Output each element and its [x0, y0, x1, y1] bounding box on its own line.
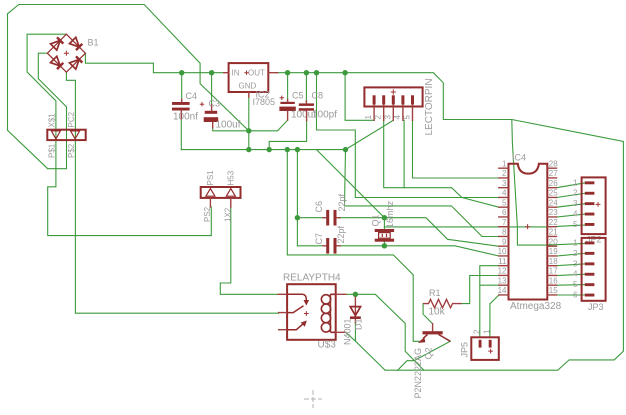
junction dot	[314, 70, 319, 75]
wire: C5 top lead	[287, 73, 289, 100]
svg-text:16mhz: 16mhz	[385, 200, 395, 228]
wire: LECTORPIN pin5 down to IC4 pin2	[413, 120, 499, 178]
svg-text:4: 4	[573, 270, 578, 279]
svg-text:22pf: 22pf	[336, 225, 346, 243]
JP3 pin numbers	[573, 238, 578, 299]
wire: LECTORPIN pin4 down to IC4 pin4 row	[404, 120, 462, 197]
junction dot	[304, 70, 309, 75]
svg-text:P$2: P$2	[67, 143, 76, 158]
wire: IC4 pin14 diagonal to JP5 pin1	[490, 295, 499, 338]
wire: B1 right corner to IC2 IN	[85, 53, 224, 72]
crystal Q1 16mhz	[375, 229, 394, 242]
pin header LECTORPIN	[364, 87, 422, 120]
wire: C3 top lead	[211, 73, 213, 105]
wire: IC4 to JP3 pin 2	[557, 253, 586, 256]
wire: IC4 pin20 to JP3 pin1	[547, 244, 585, 246]
svg-text:2: 2	[472, 329, 481, 334]
svg-text:3: 3	[573, 259, 578, 268]
svg-text:C4: C4	[186, 91, 198, 101]
svg-text:Q1: Q1	[371, 214, 381, 226]
junction dot	[285, 70, 290, 75]
svg-text:PS2: PS2	[203, 206, 212, 222]
svg-text:4: 4	[393, 115, 402, 120]
IC4 Atmega328	[499, 164, 557, 300]
svg-text:N4001: N4001	[343, 318, 353, 345]
svg-text:1: 1	[482, 329, 491, 334]
svg-text:100nf: 100nf	[173, 112, 198, 123]
bridge rectifier B1	[47, 34, 85, 72]
wire: crystal top row east to IC4 pin9	[384, 218, 498, 247]
capacitor C7	[323, 238, 340, 254]
wire: C3 bottom to big dot	[213, 128, 249, 131]
svg-text:10: 10	[498, 247, 507, 256]
svg-text:R1: R1	[429, 288, 441, 298]
wire: Q2 collector to +5V row	[398, 341, 451, 370]
wire: C6 row right to crystal	[340, 217, 384, 219]
junction dot	[382, 215, 387, 220]
svg-text:3: 3	[502, 179, 507, 188]
svg-text:1X2: 1X2	[224, 207, 233, 222]
svg-text:1: 1	[364, 115, 373, 120]
junction dot	[246, 147, 251, 152]
JP2 plus mark	[596, 202, 601, 207]
IC4 pin numbers right	[549, 159, 558, 295]
wire: D1 bottom diagonal	[355, 323, 385, 371]
svg-text:5: 5	[573, 280, 578, 289]
svg-text:C6: C6	[314, 201, 324, 213]
svg-text:1: 1	[502, 159, 507, 168]
svg-text:C7: C7	[314, 233, 324, 245]
junction dot	[285, 147, 290, 152]
relay origin cross	[304, 311, 309, 316]
junction dot	[295, 147, 300, 152]
svg-text:8: 8	[502, 228, 507, 237]
svg-text:28: 28	[549, 159, 558, 168]
wire: PS right pin down to relay top pin	[220, 207, 278, 294]
connector JP3	[582, 238, 606, 301]
wire: IC4 to JP2 pin 2	[557, 193, 586, 197]
svg-text:X$1: X$1	[48, 113, 57, 128]
svg-text:IN: IN	[232, 69, 240, 78]
svg-text:25: 25	[549, 189, 558, 198]
wire: IC4 to JP3 pin 6	[557, 294, 586, 296]
svg-text:1: 1	[573, 178, 578, 187]
svg-text:U$3: U$3	[318, 340, 337, 351]
wire: IC4 to JP3 pin 5	[557, 284, 586, 287]
JP5 plus mark	[488, 349, 493, 354]
svg-text:6: 6	[502, 208, 507, 217]
svg-text:5: 5	[573, 220, 578, 229]
wire: LECTORPIN pin2 down	[384, 120, 404, 187]
wire: R1 right up to IC4 pin12	[462, 276, 499, 304]
wire: GND bus	[181, 149, 345, 151]
svg-text:I7805: I7805	[253, 97, 276, 107]
svg-text:OUT: OUT	[248, 69, 265, 78]
svg-text:6: 6	[573, 291, 578, 300]
wire: rail branch x345 to LECTORPIN pin1	[345, 73, 374, 121]
svg-text:C8: C8	[312, 91, 324, 101]
wire: IC4 to JP3 pin 4	[557, 274, 586, 275]
wire: bus diagonal to crystal top	[317, 150, 385, 218]
junction dot	[353, 292, 358, 297]
connector X1	[47, 130, 85, 140]
wire: C6 row left	[297, 217, 323, 219]
wire: LECTORPIN pin3 diagonal to GND dot	[346, 120, 394, 149]
transistor Q2 P2N2222AG	[418, 324, 451, 343]
svg-text:GND: GND	[239, 82, 257, 91]
wire: outer loop left + top GND feed to big dot	[8, 5, 249, 169]
svg-text:3: 3	[383, 115, 392, 120]
origin cross of B1	[64, 51, 69, 56]
resistor R1 10k	[423, 299, 462, 307]
svg-text:12: 12	[498, 267, 507, 276]
C3 plus mark	[200, 102, 204, 106]
svg-text:JP3: JP3	[588, 302, 604, 312]
wire: IC4 to JP2 pin 1	[557, 183, 586, 188]
junction dot	[382, 243, 387, 248]
svg-text:13: 13	[498, 276, 507, 285]
svg-text:15: 15	[549, 286, 558, 295]
svg-text:H53: H53	[227, 170, 236, 185]
junction dot	[179, 70, 184, 75]
svg-text:100uf: 100uf	[216, 120, 241, 131]
svg-text:3: 3	[573, 199, 578, 208]
wire: C8 top lead	[305, 73, 307, 101]
svg-text:IC4: IC4	[512, 153, 526, 163]
wire: relay coil top east to +5V row	[346, 294, 424, 370]
capacitor C5	[279, 100, 295, 121]
wire: rail branch x316 south then to x355	[317, 73, 499, 198]
svg-text:9: 9	[502, 237, 507, 246]
wire: B1 top corner to X1 pin1 to PS1 left pin	[27, 34, 211, 235]
svg-text:27: 27	[549, 169, 558, 178]
svg-text:C5: C5	[292, 91, 304, 101]
svg-text:23: 23	[549, 208, 558, 217]
wire: X1 middle vertical to B1 left corner	[38, 53, 66, 169]
svg-text:17: 17	[549, 267, 558, 276]
wire: C7 row right to crystal and IC4 pin10	[340, 246, 499, 256]
diode D1 N4001	[350, 297, 361, 323]
svg-text:2: 2	[573, 189, 578, 198]
svg-text:26: 26	[549, 179, 558, 188]
wire: B1 bottom corner to X1 pin2 to relay switch pin	[66, 72, 278, 313]
capacitor C4	[172, 100, 190, 120]
IC2 origin cross	[244, 71, 248, 75]
capacitor C8	[299, 101, 314, 121]
svg-text:4: 4	[502, 189, 507, 198]
wire: IC4 to JP2 pin 4	[557, 214, 586, 217]
wire: C7 row left	[297, 245, 323, 247]
connector JP2	[582, 177, 606, 234]
svg-text:LECTORPIN: LECTORPIN	[424, 78, 435, 135]
relay U$3 RELAYPTH4	[278, 284, 345, 340]
svg-text:1: 1	[573, 238, 578, 247]
wire: IC4 to JP3 pin 3	[557, 264, 586, 266]
svg-text:P2N2222AG: P2N2222AG	[413, 348, 423, 399]
wire: R1 left to Q2 base	[423, 304, 433, 324]
capacitor C6	[323, 210, 340, 226]
wire: shallow diagonal to IC4 pin5	[462, 198, 499, 208]
wire: relay coil bottom diagonal to D1	[346, 332, 356, 341]
svg-text:5: 5	[502, 198, 507, 207]
wire: IC2 GND vertical	[248, 97, 250, 150]
svg-text:4: 4	[573, 210, 578, 219]
wire: IC4 to JP2 pin 3	[557, 204, 586, 208]
svg-text:2: 2	[573, 249, 578, 258]
svg-text:14: 14	[498, 286, 507, 295]
svg-text:P$1: P$1	[48, 143, 57, 158]
svg-text:PS1: PS1	[206, 170, 215, 186]
junction dot	[246, 128, 251, 133]
wire: IC4 pin11/pin13 to JP5 pin2	[480, 266, 499, 338]
svg-text:B1: B1	[88, 38, 99, 48]
svg-text:18: 18	[549, 257, 558, 266]
svg-text:7: 7	[502, 218, 507, 227]
junction dot	[209, 70, 214, 75]
svg-text:JP5: JP5	[460, 342, 470, 358]
wire: D1 top tie	[354, 294, 356, 297]
wire: crystal leads	[383, 218, 385, 229]
connector JP5	[471, 337, 499, 360]
svg-text:21: 21	[549, 228, 558, 237]
wire: C4 bottom to GND bus	[180, 119, 182, 150]
svg-text:16: 16	[549, 276, 558, 285]
svg-text:2: 2	[374, 115, 383, 120]
svg-text:Q2: Q2	[424, 347, 434, 359]
svg-text:C3: C3	[209, 99, 221, 109]
IC4 pin numbers left	[498, 159, 507, 295]
wire: C4 top lead	[181, 73, 183, 102]
C5 plus mark	[280, 96, 284, 100]
svg-text:19: 19	[549, 247, 558, 256]
PS1 pin stubs	[210, 198, 230, 207]
svg-text:5: 5	[403, 115, 412, 120]
wire: GND branch to C6/C7	[296, 150, 298, 246]
junction dot	[342, 70, 347, 75]
wire: GND branch to emitter	[287, 150, 421, 342]
svg-text:RELAYPTH4: RELAYPTH4	[283, 273, 341, 284]
svg-text:20: 20	[549, 237, 558, 246]
IC4 origin cross	[525, 224, 530, 229]
wire: C8 bottom jog to GND bus	[269, 121, 306, 150]
wire: branch into IC4 interior	[512, 120, 548, 246]
wire: bus end south then east to IC4 pin8	[345, 150, 499, 237]
connector PS1	[201, 187, 241, 198]
crosshair origin mark	[304, 390, 322, 408]
wire: VCC through-row to IC4 pin7 and JP2 pin5	[384, 225, 585, 227]
wire: C5 bottom diagonal to big dot	[249, 120, 288, 131]
voltage regulator IC2	[224, 63, 278, 97]
svg-text:100pf: 100pf	[312, 110, 337, 121]
svg-text:2: 2	[502, 169, 507, 178]
svg-text:22: 22	[549, 218, 558, 227]
capacitor C3	[204, 105, 219, 128]
svg-text:Atmega328: Atmega328	[510, 301, 562, 312]
svg-text:24: 24	[549, 198, 558, 207]
svg-text:22pf: 22pf	[337, 193, 347, 211]
svg-text:10k: 10k	[429, 307, 446, 318]
svg-text:PC2: PC2	[67, 111, 76, 127]
junction dot	[343, 147, 348, 152]
svg-text:D1: D1	[354, 318, 364, 330]
JP2 pin numbers	[573, 178, 578, 229]
LECTORPIN origin cross	[391, 89, 396, 94]
wire: +5V rail from IC2 OUT east	[278, 73, 624, 371]
svg-text:11: 11	[498, 257, 507, 266]
junction dot	[295, 215, 300, 220]
junction dot	[267, 147, 272, 152]
